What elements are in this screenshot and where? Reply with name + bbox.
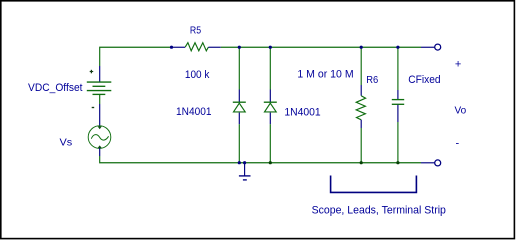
junction dot top CFixed xyxy=(396,46,399,49)
resistor R6 branch wire top xyxy=(360,47,362,85)
wire top rail middle (R5 right to terminal stub) xyxy=(221,46,421,48)
junction dot bottom D1 xyxy=(238,161,241,164)
diode D1 1N4001 branch wire xyxy=(238,47,240,90)
terminal Vo- xyxy=(435,160,441,166)
wire bottom terminal stub xyxy=(421,162,435,164)
wire battery to Vs xyxy=(99,94,101,104)
svg-text:1N4001: 1N4001 xyxy=(284,106,320,118)
svg-text:+: + xyxy=(455,59,461,71)
ground xyxy=(239,163,251,180)
svg-text:Vs: Vs xyxy=(60,137,73,149)
battery VDC_Offset xyxy=(87,66,112,108)
wire CFixed to bottom rail xyxy=(397,122,399,163)
svg-text:1 M or 10 M: 1 M or 10 M xyxy=(297,69,353,81)
junction dot bottom R6 xyxy=(360,161,363,164)
wire R6 to bottom rail xyxy=(360,128,362,163)
capacitor CFixed xyxy=(392,90,404,122)
resistor R5 xyxy=(172,43,221,51)
wire top terminal stub xyxy=(421,46,435,48)
resistor R6 xyxy=(356,85,365,128)
bracket scope leads xyxy=(331,176,417,193)
wire D1 to bottom rail xyxy=(238,124,240,163)
junction dot top D2 xyxy=(269,46,272,49)
svg-text:VDC_Offset: VDC_Offset xyxy=(28,82,83,94)
junction dot bottom CFixed xyxy=(396,161,399,164)
diode D2 1N4001 branch wire xyxy=(269,47,271,90)
svg-text:1N4001: 1N4001 xyxy=(176,106,212,118)
svg-text:Vo: Vo xyxy=(455,104,467,116)
wire top rail left (battery top to junction) xyxy=(100,47,172,66)
svg-text:R6: R6 xyxy=(366,74,378,86)
svg-text:Scope, Leads, Terminal Strip: Scope, Leads, Terminal Strip xyxy=(312,204,446,216)
diode D2 1N4001 xyxy=(264,90,277,125)
junction dot top R5 left xyxy=(170,46,173,49)
svg-text:R5: R5 xyxy=(190,25,201,37)
junction dot bottom ground xyxy=(243,161,246,164)
AC source Vs xyxy=(88,126,111,149)
svg-text:-: - xyxy=(455,137,459,149)
capacitor CFixed branch wire top xyxy=(397,47,399,90)
wire bottom rail middle xyxy=(238,162,421,164)
junction dot top R6 xyxy=(360,46,363,49)
terminal Vo+ xyxy=(435,44,441,50)
junction dot top D1 xyxy=(238,46,241,49)
diode D1 1N4001 xyxy=(233,90,246,125)
svg-text:CFixed: CFixed xyxy=(408,74,440,86)
junction dot bottom D2 xyxy=(269,161,272,164)
wire D2 to bottom rail xyxy=(269,124,271,163)
wire Vs to bottom rail xyxy=(99,148,101,156)
svg-text:100 k: 100 k xyxy=(185,69,210,81)
